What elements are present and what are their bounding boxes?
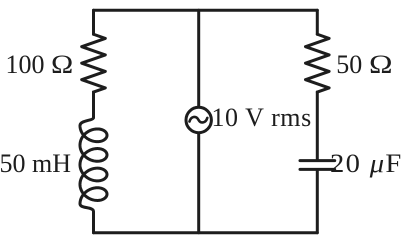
source sine symbol	[190, 117, 208, 123]
wire top	[94, 9, 318, 12]
wire right between R2 and C1	[316, 92, 319, 159]
wire middle top	[197, 10, 200, 107]
label 100 ohm	[6, 50, 71, 80]
wire bottom	[94, 231, 318, 234]
label 50 mH	[0, 149, 71, 179]
wire middle bottom	[197, 133, 200, 233]
wire left between R1 and L1	[92, 92, 95, 117]
wire left top lead	[92, 10, 95, 34]
resistor R1	[82, 34, 106, 92]
capacitor C1 top plate	[300, 159, 335, 162]
capacitor C1 bottom plate	[300, 168, 335, 171]
label 10 V rms	[212, 103, 312, 133]
label 20 uF	[330, 149, 403, 179]
resistor R2	[306, 34, 330, 92]
wire right top lead	[316, 10, 319, 34]
wire right bottom lead	[316, 171, 319, 233]
source U1 circle	[186, 107, 211, 132]
label 50 ohm	[336, 50, 388, 80]
inductor L1	[80, 118, 107, 233]
